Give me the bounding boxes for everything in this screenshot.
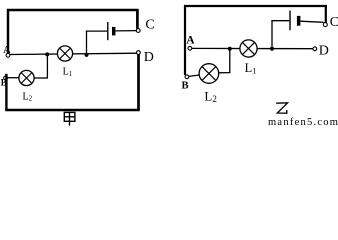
svg-text:D: D	[319, 43, 329, 58]
wire right upper vertical top corner to node C (left circuit)	[136, 9, 139, 29]
wire L2 branch vertical down (right circuit)	[229, 49, 231, 73]
svg-text:C: C	[330, 15, 338, 30]
battery short thick plate (left circuit)	[112, 27, 115, 36]
node A terminal circle (right circuit)	[188, 46, 192, 50]
wire L2 branch horizontal to lamp (right circuit)	[219, 72, 231, 74]
wire L2 branch vertical down (left circuit)	[46, 54, 48, 78]
battery long plate (left circuit)	[107, 22, 109, 40]
wire battery branch vertical up (left circuit)	[86, 31, 88, 55]
wire right lower vertical node D to bottom corner (left circuit)	[137, 54, 140, 110]
wire right vertical top corner to node C (right circuit)	[325, 5, 327, 23]
junction dot for battery branch (right circuit)	[270, 47, 274, 51]
wire left side from top corner to node B (right circuit)	[184, 5, 186, 75]
node B terminal circle (left circuit)	[4, 76, 8, 80]
junction dot for battery branch (left circuit)	[85, 53, 89, 57]
svg-text:L1: L1	[63, 67, 73, 78]
wire left lower vertical B to bottom corner (left circuit)	[5, 74, 7, 111]
wire bottom side (left circuit)	[5, 109, 139, 112]
junction dot for L2 branch (left circuit)	[45, 52, 49, 56]
lamp L1 (left circuit)	[57, 46, 72, 61]
wire left side from top corner to node A	[7, 9, 10, 54]
wire battery branch horizontal to battery (left circuit)	[86, 30, 107, 32]
wire from node B to lamp L2 (right circuit)	[189, 75, 200, 76]
wire battery branch vertical up (right circuit)	[271, 20, 273, 49]
wire main horizontal A to D (left circuit)	[10, 53, 137, 54]
lamp L2 (left circuit)	[19, 70, 34, 85]
wire battery to node C (left circuit)	[115, 30, 136, 32]
svg-text:A: A	[186, 35, 195, 47]
lamp L1 (right circuit)	[240, 40, 257, 57]
svg-text:L1: L1	[245, 61, 257, 76]
wire battery to node C (right circuit)	[300, 21, 323, 22]
wire top side (right circuit)	[184, 5, 327, 7]
lamp L2 (right circuit)	[199, 64, 219, 84]
node A terminal circle (left circuit)	[6, 53, 10, 57]
svg-text:manfen5.com: manfen5.com	[268, 117, 338, 126]
wire battery branch horizontal to battery (right circuit)	[271, 20, 289, 22]
svg-text:D: D	[144, 50, 154, 65]
battery long plate (right circuit)	[289, 11, 291, 31]
battery short thick plate (right circuit)	[297, 16, 301, 26]
wire main horizontal A to D (right circuit)	[192, 47, 313, 49]
wire top side (left circuit)	[7, 9, 138, 12]
junction dot for L2 branch (right circuit)	[228, 47, 232, 51]
node C terminal circle (left circuit)	[136, 29, 140, 33]
figure label yi (right circuit)	[276, 103, 287, 113]
figure label jia (left circuit)	[64, 112, 75, 125]
wire L2 branch horizontal to lamp (left circuit)	[34, 77, 48, 79]
svg-text:C: C	[145, 18, 154, 33]
svg-text:B: B	[182, 81, 189, 92]
node C terminal circle (right circuit)	[323, 23, 327, 27]
svg-text:L2: L2	[204, 89, 216, 105]
node B terminal circle (right circuit)	[185, 75, 189, 79]
svg-text:L2: L2	[23, 91, 33, 102]
node D terminal circle (right circuit)	[313, 47, 317, 51]
node D terminal circle (left circuit)	[137, 51, 141, 55]
wire from lamp L2 to node B (left circuit)	[8, 77, 19, 79]
